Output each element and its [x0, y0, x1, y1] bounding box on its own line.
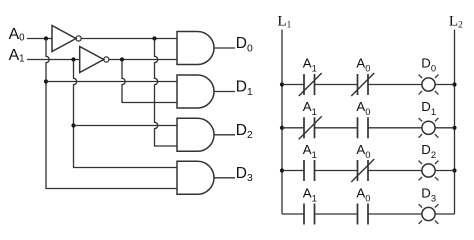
- wire A1' vertical branch (hop over A0 branch) to gate G2 lower input: [122, 60, 177, 103]
- svg-text:A1: A1: [303, 186, 317, 204]
- output coil D2 circle: [422, 164, 435, 177]
- junction dot A1' branch: [120, 57, 124, 61]
- svg-text:A0: A0: [9, 26, 26, 43]
- svg-text:A0: A0: [356, 99, 370, 117]
- wire G4 output: [214, 177, 235, 179]
- svg-text:D3: D3: [421, 186, 436, 204]
- rung 2 wire segments: [282, 127, 455, 129]
- svg-text:L2: L2: [449, 13, 463, 31]
- wire A0 branch to gate G2 upper input: [46, 81, 177, 83]
- ladder power rail L1: [281, 30, 283, 215]
- output coil D2 rays: [419, 161, 439, 181]
- contact A1 rung 2 (NC) bars: [304, 117, 315, 138]
- inverter U2 bubble: [104, 57, 109, 62]
- rail L2 junction dot rung 1: [452, 82, 456, 86]
- wire A0' vertical branch (hops over A1', A0 and A1 branches) to gate G3 lower input: [155, 39, 178, 147]
- rail L2 junction dot rung 2: [452, 126, 456, 130]
- inverter U2 triangle: [80, 47, 104, 73]
- wire G3 output: [214, 134, 235, 136]
- wire A1 input: [27, 59, 80, 61]
- rung 3 wire segments: [282, 170, 455, 172]
- svg-text:A0: A0: [356, 142, 370, 160]
- AND gate G3: [177, 118, 214, 151]
- junction dot A0' branch: [152, 36, 156, 40]
- svg-text:A0: A0: [356, 56, 370, 74]
- rail L1 junction dot rung 1: [280, 82, 284, 86]
- svg-text:D1: D1: [236, 79, 253, 98]
- contact A0 rung 4 (NO) bars: [358, 204, 369, 225]
- contact A1 rung 1 NC slash: [299, 73, 322, 96]
- svg-text:A1: A1: [9, 47, 25, 64]
- output coil D0 rays: [419, 75, 439, 95]
- contact A0 rung 3 NC slash: [351, 159, 374, 182]
- wire A0 input: [27, 38, 52, 40]
- AND gate G2: [177, 75, 214, 108]
- contact A1 rung 1 (NC) bars: [304, 74, 315, 95]
- wire G2 output: [214, 91, 235, 93]
- wire A1 vertical branch (hop over A0 branch) down to gate G4 upper input: [74, 60, 178, 168]
- rail L2 junction dot rung 3: [452, 168, 456, 172]
- rail L1 junction dot rung 3: [280, 168, 284, 172]
- inverter U1 bubble: [76, 36, 81, 41]
- svg-text:D3: D3: [236, 165, 253, 184]
- contact A1 rung 2 NC slash: [299, 116, 322, 139]
- junction dot A0 branch to G2: [44, 79, 48, 83]
- wire G1 output: [214, 47, 235, 49]
- svg-text:A1: A1: [303, 142, 317, 160]
- svg-text:L1: L1: [277, 13, 291, 31]
- contact A1 rung 3 (NO) bars: [304, 160, 315, 181]
- wire A1' from U2 output to gate G1 lower input: [109, 59, 177, 61]
- wire A0' from U1 output to gate G1 upper input: [81, 38, 177, 40]
- svg-text:D0: D0: [236, 35, 253, 54]
- output coil D1 rays: [419, 118, 439, 138]
- output coil D0 circle: [422, 78, 435, 91]
- output coil D3 rays: [419, 204, 439, 224]
- rail L1 junction dot rung 2: [280, 126, 284, 130]
- output coil D1 circle: [422, 121, 435, 134]
- contact A0 rung 2 (NO) bars: [358, 117, 369, 138]
- AND gate G4: [177, 161, 214, 194]
- contact A0 rung 1 (NC) bars: [358, 74, 369, 95]
- junction dot A0 branch: [44, 36, 48, 40]
- AND gate G1: [177, 32, 214, 65]
- output coil D3 circle: [422, 207, 435, 220]
- svg-text:D2: D2: [236, 122, 253, 141]
- junction dot A1 branch: [71, 57, 75, 61]
- svg-text:D1: D1: [421, 99, 436, 117]
- junction dot A1 branch to G3: [71, 123, 75, 127]
- inverter U1 triangle: [52, 26, 76, 52]
- wire A1 branch to gate G3 upper input: [74, 125, 178, 127]
- rung 4 wire segments: [282, 213, 455, 215]
- svg-text:D2: D2: [421, 142, 436, 160]
- ladder power rail L2: [454, 30, 456, 215]
- svg-text:A1: A1: [303, 99, 317, 117]
- contact A0 rung 1 NC slash: [351, 73, 374, 96]
- contact A1 rung 4 (NO) bars: [304, 204, 315, 225]
- svg-text:D0: D0: [421, 56, 436, 74]
- wire A0 vertical branch (hop over A1) down to gate G4 lower input: [46, 39, 177, 189]
- rung 1 wire segments: [282, 84, 455, 86]
- svg-text:A0: A0: [356, 186, 370, 204]
- svg-text:A1: A1: [303, 56, 317, 74]
- contact A0 rung 3 (NC) bars: [358, 160, 369, 181]
